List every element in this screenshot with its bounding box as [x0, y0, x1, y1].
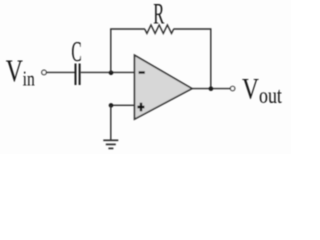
label Vin [6, 54, 35, 90]
output terminal [230, 86, 234, 90]
capacitor C1 plate left [75, 64, 77, 86]
label R [153, 0, 164, 31]
svg-text:V: V [6, 54, 23, 89]
wire feedback top left segment [110, 28, 145, 30]
node junction non-inverting input [109, 103, 114, 108]
op-amp non-inverting pin mark [137, 103, 144, 111]
svg-text:R: R [153, 0, 164, 31]
wire to ground [110, 105, 112, 140]
op-amp U1 [135, 55, 193, 119]
svg-text:V: V [242, 72, 259, 105]
capacitor C1 plate right [79, 64, 81, 86]
wire op-amp output [192, 88, 230, 90]
resistor R1 [145, 25, 174, 33]
wire input terminal to capacitor [47, 71, 75, 73]
ground [103, 140, 118, 148]
label Vout [242, 72, 282, 109]
node junction inverting input [109, 71, 114, 76]
op-amp inverting pin mark [139, 71, 145, 73]
wire non-inverting input to ground branch [110, 104, 134, 106]
wire feedback branch vertical left [110, 29, 112, 72]
svg-text:in: in [23, 67, 35, 90]
node junction output feedback [209, 86, 214, 91]
input terminal [42, 70, 47, 75]
svg-text:C: C [71, 36, 81, 67]
wire feedback top right segment [173, 28, 211, 30]
svg-text:out: out [259, 84, 282, 109]
wire capacitor to op-amp inverting input [81, 71, 135, 73]
label C [71, 36, 81, 67]
wire feedback branch vertical right [210, 29, 212, 89]
